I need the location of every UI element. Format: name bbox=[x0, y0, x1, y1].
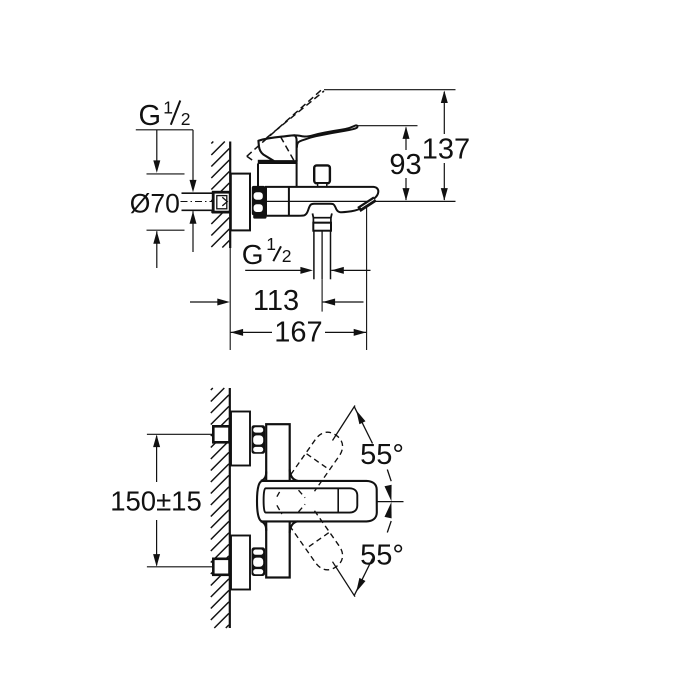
dimension 150 +/- 15 bbox=[156, 436, 158, 482]
lever raised position (dashed) bbox=[247, 90, 324, 161]
grip front edge line bbox=[337, 488, 339, 512]
svg-text:55°: 55° bbox=[360, 540, 404, 572]
dimension line O70 (flange) bbox=[156, 130, 158, 162]
handle base band (dark cap) bbox=[258, 160, 297, 163]
svg-text:113: 113 bbox=[253, 285, 299, 317]
55deg dimension lower: axis extension bbox=[333, 562, 356, 597]
svg-text:G: G bbox=[242, 239, 264, 270]
dimension 113 bbox=[190, 301, 219, 303]
upper hex union nut bbox=[252, 426, 265, 454]
lever paddle rotated raised +55 deg (dashed) bbox=[276, 427, 348, 513]
lever paddle (plan, solid) bbox=[257, 481, 377, 522]
wall hatching (top view) bbox=[211, 142, 229, 248]
wall union square fitting bbox=[213, 192, 230, 212]
wall surface line (bottom view) bbox=[229, 388, 231, 628]
centerline dash-dot through supply bbox=[181, 201, 231, 203]
svg-text:1: 1 bbox=[266, 234, 276, 254]
horizontal line at lever tip bbox=[377, 501, 404, 503]
knob stem bbox=[318, 183, 327, 187]
svg-text:2: 2 bbox=[181, 109, 191, 129]
wall hatching (bottom view) bbox=[211, 388, 229, 628]
dimension line G1/2 (supply pipe) bbox=[192, 130, 194, 181]
wall extension line down to 167 dimension bbox=[229, 248, 231, 350]
spout outlet (thick aerator slab) bbox=[359, 199, 375, 210]
93 top reference line (solid lever tip level) bbox=[358, 125, 418, 127]
hose center extension for 113 dim bbox=[321, 279, 323, 311]
svg-text:150±15: 150±15 bbox=[110, 486, 202, 517]
supply pipe G1/2 (two walls) bbox=[182, 192, 214, 194]
dimension 93 bbox=[405, 128, 407, 151]
spout tip extension line (167 right) bbox=[366, 207, 368, 350]
svg-text:G: G bbox=[139, 100, 162, 132]
upper wall union square bbox=[213, 426, 229, 442]
dimension 137 bbox=[443, 92, 445, 134]
paddle-to-body fillets bbox=[261, 470, 298, 533]
main centerline through body (93/137 lower reference) bbox=[252, 200, 456, 202]
mixer body (horizontal) with spout and shower dome bbox=[266, 187, 378, 216]
cartridge housing bbox=[257, 164, 259, 188]
svg-text:93: 93 bbox=[389, 149, 421, 181]
55deg dimension lower: chord with arrows bbox=[354, 559, 372, 596]
svg-text:167: 167 bbox=[274, 317, 322, 349]
lower flange block bbox=[231, 536, 250, 590]
leader line to upper connection bbox=[147, 433, 213, 435]
svg-text:Ø70: Ø70 bbox=[130, 188, 180, 218]
leader line to lower connection bbox=[147, 566, 213, 568]
lower hex union nut bbox=[252, 548, 265, 576]
chevron inside union bbox=[222, 197, 227, 206]
lever handle (solid position) bbox=[258, 135, 296, 161]
55deg dimension upper: axis extension bbox=[333, 406, 356, 441]
mixer body bar (plan) bbox=[266, 424, 290, 577]
svg-text:55°: 55° bbox=[360, 439, 404, 471]
label underline bbox=[136, 129, 193, 131]
svg-text:2: 2 bbox=[282, 246, 292, 266]
dimension 167 bbox=[231, 329, 244, 336]
shower hose connector rings bbox=[313, 218, 331, 223]
lower wall union square bbox=[213, 559, 229, 575]
body internal line (mount block edge) bbox=[288, 187, 290, 216]
union nut lower collar bbox=[254, 215, 267, 219]
wall surface line (top view) bbox=[229, 142, 231, 249]
lever paddle rotated lowered -55 deg (dashed) bbox=[276, 489, 348, 575]
flange dia extension lines bbox=[147, 173, 185, 175]
shower outlet cone below body bbox=[312, 213, 315, 217]
wall flange (escutcheon) edge-on bbox=[231, 174, 250, 231]
paddle inner outline bbox=[264, 488, 358, 512]
137 top reference line (dashed lever tip level) bbox=[324, 89, 456, 91]
upper flange block bbox=[231, 412, 250, 466]
55deg dimension upper: chord with arrows bbox=[354, 407, 372, 444]
svg-text:137: 137 bbox=[422, 134, 470, 166]
shower hose lines bbox=[313, 231, 315, 280]
svg-text:1: 1 bbox=[163, 98, 173, 118]
hose G1/2 leader with arrows bbox=[245, 269, 302, 271]
S-union nut (dark) bbox=[252, 186, 265, 215]
diverter knob bbox=[314, 165, 330, 183]
